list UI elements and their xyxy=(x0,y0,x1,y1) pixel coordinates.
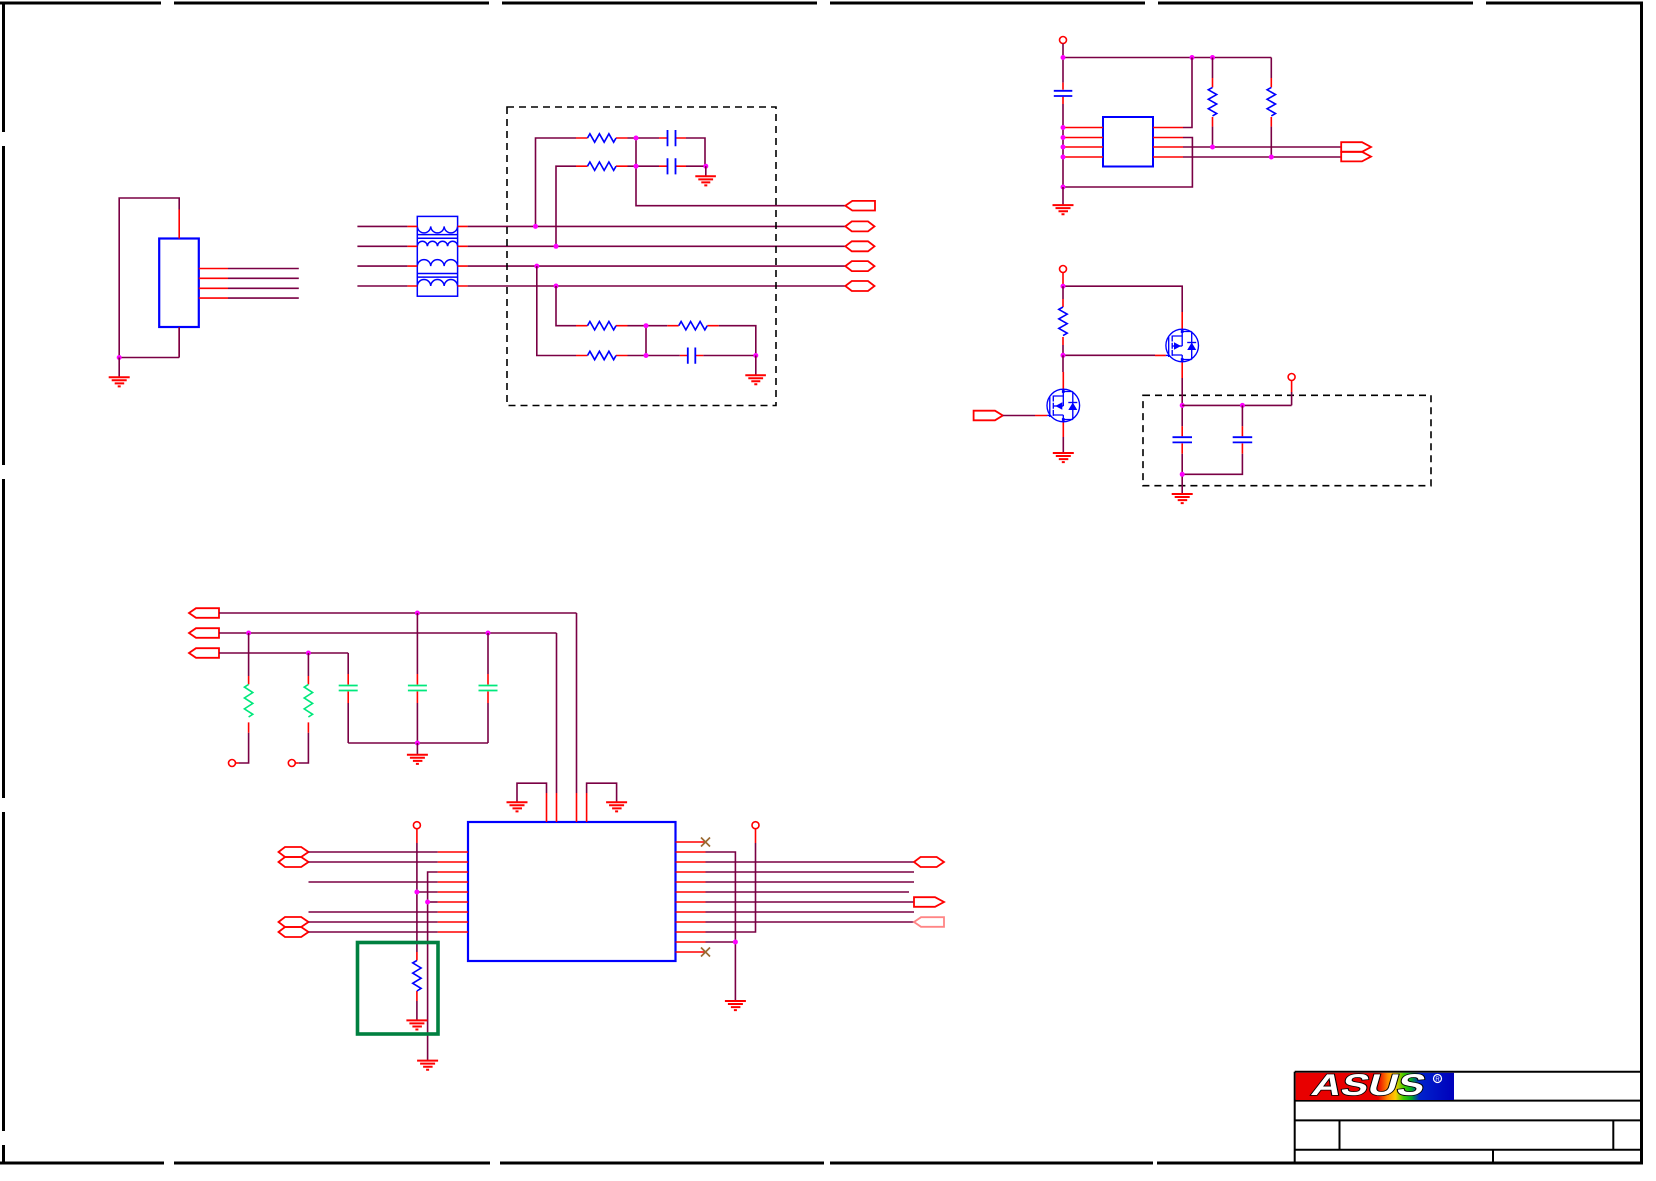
capacitor C7 xyxy=(339,653,358,743)
wire pinR3 xyxy=(706,861,915,863)
wire row2 right xyxy=(703,355,756,357)
capacitor C5 xyxy=(1173,426,1193,454)
wire U1 pinL5 xyxy=(417,891,438,893)
wire pinR11 xyxy=(706,941,736,943)
junction ground rail U2 xyxy=(1061,185,1066,190)
highlight box (green) xyxy=(358,943,439,1035)
port MDI0+ hexagon xyxy=(845,221,874,231)
wire cap bottoms xyxy=(1182,454,1242,494)
wire U1 pinL4 xyxy=(309,881,438,883)
resistor R4 xyxy=(667,322,718,330)
resistor R8 xyxy=(1059,286,1067,355)
transistor Q2 xyxy=(1047,389,1080,422)
wire net MDI0- bus line2 xyxy=(468,245,846,247)
wire line CT2 xyxy=(219,632,557,634)
wire U2 out2 xyxy=(1183,156,1341,158)
wire U2 out1 xyxy=(1183,146,1341,148)
junction cap node A xyxy=(1180,403,1185,408)
power node VCC4 xyxy=(413,822,420,843)
capacitor C8 xyxy=(408,613,427,743)
resistor R6 xyxy=(1208,58,1216,148)
wire pinR9 xyxy=(706,921,915,923)
wire U1 pinL9 xyxy=(309,931,438,933)
wire rowB left drop xyxy=(556,166,576,246)
junction VCC1-C4 xyxy=(1061,55,1066,60)
terminal TP1 xyxy=(229,760,236,767)
port TXC (right-pointing) xyxy=(914,897,944,907)
junction rowA-R1C1 xyxy=(634,136,639,141)
wire U1 top staple left xyxy=(517,783,547,802)
junction row2 link xyxy=(644,353,649,358)
wire U1 pinL8 xyxy=(309,921,438,923)
power node VCC3 xyxy=(1288,374,1295,393)
junction gate node xyxy=(1061,353,1066,358)
dashed termination network box xyxy=(507,107,776,406)
transistor Q1 pins xyxy=(1155,312,1182,378)
port RX- hexagon xyxy=(279,857,309,867)
wire U2 pin6 ground loop xyxy=(1063,138,1192,188)
port SD hexagon xyxy=(914,857,944,867)
junction CT3-R10 xyxy=(306,651,311,656)
port MDI1- hexagon xyxy=(845,281,874,291)
ground (U1 staple right) xyxy=(606,802,627,811)
resistor R9 xyxy=(236,633,253,763)
capacitor C6 xyxy=(1233,405,1253,453)
junction cap bus xyxy=(415,741,420,746)
junction U2 pin4 xyxy=(1061,155,1066,160)
port RXC (left-pointing, highlighted) xyxy=(914,917,944,927)
ground (Q2) xyxy=(1053,453,1074,462)
wire VCC1 rail xyxy=(1063,58,1271,83)
wire pinR4 xyxy=(706,871,915,873)
dashed capacitor box xyxy=(1143,395,1431,485)
transformer T1 pins xyxy=(407,226,467,286)
wire J1 pin stubs xyxy=(228,269,299,299)
junction pinR11 ground rail xyxy=(733,940,738,945)
port RX+ hexagon xyxy=(279,847,309,857)
ground (U1 right rail) xyxy=(725,1001,746,1010)
transistor Q1 xyxy=(1166,329,1199,362)
ground (termination bottom) xyxy=(745,356,766,385)
power node VCC1 xyxy=(1060,37,1067,58)
ground (cap bus) xyxy=(407,743,428,764)
wire VCC4 riser xyxy=(416,843,418,952)
wire pinR2 ground drop xyxy=(706,852,736,1001)
wire pinR5 xyxy=(706,881,915,883)
wire net MDI1- bus line4 xyxy=(468,285,846,287)
wire center tap output xyxy=(636,138,845,206)
wire input to Q2 gate xyxy=(1003,415,1035,417)
wire pinR6 xyxy=(706,891,910,893)
junction VCC2 xyxy=(1061,284,1066,289)
transistor Q2 pins xyxy=(1035,372,1063,437)
wire U1 pinL1 xyxy=(309,851,438,853)
wire pinR7 xyxy=(706,901,915,903)
connector J1 xyxy=(159,210,228,358)
junction R7 out2 xyxy=(1269,155,1274,160)
capacitor C4 xyxy=(1054,83,1073,104)
power node VCC5 xyxy=(752,822,759,843)
wire net MDI1+ bus line3 xyxy=(468,265,846,267)
resistor R11 xyxy=(413,952,421,1001)
junction rowB ground node xyxy=(703,164,708,169)
capacitor C9 xyxy=(479,633,498,743)
junction CT2-R9 xyxy=(246,631,251,636)
wire pinR10 to power xyxy=(706,843,756,932)
wire rowA mid xyxy=(628,137,660,139)
port TX- hexagon xyxy=(279,927,309,937)
resistor R10 xyxy=(295,653,312,763)
junction U2 pin3 xyxy=(1061,145,1066,150)
wire U1 pinL6 xyxy=(428,901,438,903)
ground (termination top) xyxy=(695,166,716,185)
capacitor C1 xyxy=(659,130,686,146)
port TD output (left-pointing) xyxy=(845,201,875,211)
wire rowA to rowB corner xyxy=(686,138,705,166)
junction line4 tap xyxy=(554,284,559,289)
wire CT2 drop to U1 xyxy=(556,633,558,793)
no-connect X pinR1 xyxy=(701,838,710,847)
port CT2 (left-pointing) xyxy=(189,628,219,638)
transformer T1 xyxy=(417,216,457,296)
junction CT1-C8 xyxy=(415,611,420,616)
port CT1 (left-pointing) xyxy=(189,608,219,618)
port CT3 (left-pointing) xyxy=(189,648,219,658)
U1 right pin leads xyxy=(676,842,706,952)
no-connect X pinR12 xyxy=(701,948,710,957)
wire VCC2 to Q1 drain xyxy=(1063,286,1182,312)
wire Q2 source to ground xyxy=(1062,437,1064,453)
resistor R2 xyxy=(576,162,628,170)
resistor R1 xyxy=(576,134,628,142)
ground (connector) xyxy=(109,358,130,387)
wire row1-row2 link xyxy=(645,326,647,356)
wire U2 pin5 riser xyxy=(1183,58,1192,128)
wire pinR8 xyxy=(706,911,915,913)
wire line CT1 xyxy=(219,612,577,614)
resistor R7 xyxy=(1267,58,1275,158)
junction VCC4 pinL5 xyxy=(414,890,419,895)
port gate input (right-pointing) xyxy=(974,411,1003,421)
wire T1 left stubs xyxy=(357,226,407,286)
wire row1 to row2 corner xyxy=(719,326,756,356)
wire net MDI0+ bus line1 xyxy=(468,225,846,227)
wire left pin rail U2 xyxy=(1062,104,1064,187)
wire U1 pinL7 xyxy=(309,911,438,913)
wire rowB mid xyxy=(628,165,660,167)
wire line4 drop to bottom row1 xyxy=(556,286,576,326)
junction cap node B xyxy=(1240,403,1245,408)
resistor R5 xyxy=(576,351,628,359)
wire cap node rail xyxy=(1182,392,1291,405)
port MDI1+ hexagon xyxy=(845,261,874,271)
capacitor C3 xyxy=(680,348,704,364)
wire row1 mid xyxy=(628,325,668,327)
ground (cap box) xyxy=(1172,494,1193,503)
junction node J1-ground xyxy=(117,355,122,360)
junction rowB cross xyxy=(634,164,639,169)
port ACT LED (right-pointing) xyxy=(1341,142,1371,152)
capacitor C2 xyxy=(659,158,686,174)
wire CT1 drop to U1 xyxy=(576,613,578,793)
wire cap common bus xyxy=(348,742,488,744)
port MDI0- hexagon xyxy=(845,241,874,251)
resistor R3 xyxy=(576,322,628,330)
ground (U1 staple left) xyxy=(507,802,528,811)
wire line CT3 xyxy=(219,652,348,654)
ground (U2) xyxy=(1053,187,1074,214)
IC U2 xyxy=(1103,117,1153,167)
port TX+ hexagon xyxy=(279,917,309,927)
U1 top pins xyxy=(547,793,587,822)
wire U1 pinL3 riser xyxy=(428,872,438,1061)
wire R8 to Q1 gate xyxy=(1063,354,1155,356)
wire gate node to Q2 drain xyxy=(1062,355,1064,372)
junction VCC1-pin1riser xyxy=(1190,55,1195,60)
junction row1 link xyxy=(644,323,649,328)
IC U1 xyxy=(468,822,676,961)
wire row2 mid xyxy=(628,355,680,357)
svg-text:R: R xyxy=(1435,1077,1440,1083)
junction cap ground node xyxy=(1180,472,1185,477)
junction R6 out1 xyxy=(1210,145,1215,150)
terminal TP2 xyxy=(288,760,295,767)
U2 left pins xyxy=(1063,128,1103,158)
wire J1 top loop to ground xyxy=(119,198,179,358)
wire U1 pinL2 xyxy=(309,861,438,863)
ground (R11) xyxy=(406,1001,427,1030)
junction U2 pin1 xyxy=(1061,125,1066,130)
junction line1 tap xyxy=(533,224,538,229)
ground (pinL3 riser) xyxy=(417,1061,438,1070)
junction CT2-C9 xyxy=(486,631,491,636)
power node VCC2 xyxy=(1060,266,1067,287)
wire rowB to ground xyxy=(686,165,706,167)
junction line3 tap xyxy=(534,264,539,269)
junction VCC1-R6 xyxy=(1210,55,1215,60)
U1 left pin leads xyxy=(438,852,468,932)
wire U1 top staple right xyxy=(587,783,617,802)
junction pinL6 riser xyxy=(425,900,430,905)
junction row2 ground node xyxy=(753,353,758,358)
svg-text:ASUS: ASUS xyxy=(1308,1069,1430,1102)
wire line3 drop to bottom row2 xyxy=(537,266,576,355)
wire rowA left drop xyxy=(536,138,577,226)
wire Q1 source node xyxy=(1181,378,1183,426)
port LINK LED (right-pointing) xyxy=(1341,152,1371,162)
junction U2 pin2 xyxy=(1061,135,1066,140)
junction line2 tap xyxy=(554,244,559,249)
U2 right pins xyxy=(1153,128,1183,158)
